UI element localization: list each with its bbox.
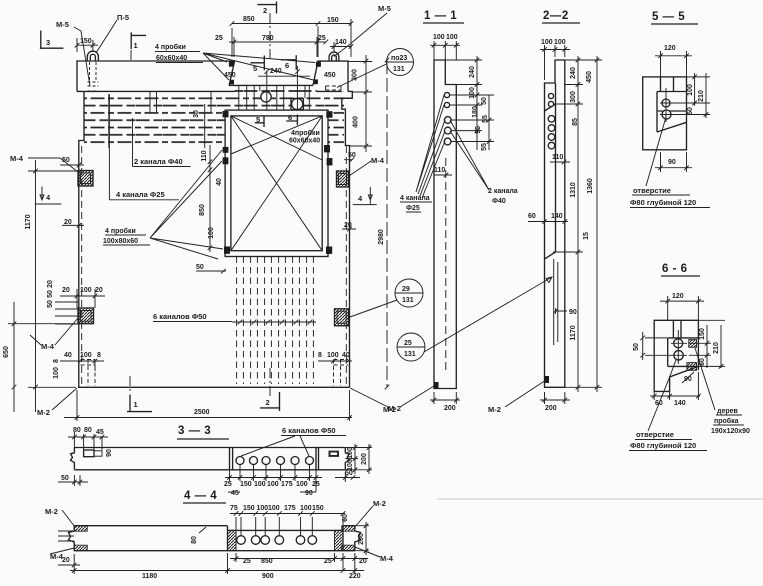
- svg-text:4пробки: 4пробки: [291, 129, 320, 137]
- window diagonals: [231, 116, 322, 251]
- dim 2980 right vertical: [385, 58, 390, 390]
- svg-text:6 каналов Ф50: 6 каналов Ф50: [153, 312, 207, 321]
- dim 120 top 5-5: [655, 51, 692, 77]
- svg-text:100: 100: [80, 287, 92, 294]
- svg-text:50: 50: [687, 107, 694, 115]
- svg-text:150: 150: [240, 481, 252, 488]
- window outer rect: [225, 110, 328, 256]
- svg-text:20: 20: [64, 219, 72, 226]
- window plug TL: [223, 111, 229, 117]
- right plug 3-3: [329, 451, 340, 457]
- svg-text:4 канала: 4 канала: [400, 195, 430, 202]
- svg-text:150: 150: [699, 328, 706, 340]
- svg-text:М-4: М-4: [380, 554, 394, 563]
- svg-text:4 канала Ф25: 4 канала Ф25: [116, 190, 165, 199]
- svg-text:25: 25: [215, 35, 223, 42]
- svg-text:2500: 2500: [194, 409, 210, 416]
- section 2-2 outline: [545, 60, 565, 387]
- left plug rects 3-3: [84, 450, 94, 457]
- svg-text:150: 150: [80, 38, 92, 45]
- svg-text:850: 850: [261, 558, 273, 565]
- svg-text:50: 50: [47, 290, 54, 298]
- svg-text:по23: по23: [391, 55, 407, 62]
- svg-text:6 - 6: 6 - 6: [662, 263, 688, 275]
- svg-text:60: 60: [528, 213, 536, 220]
- section 3-3 outline: [71, 448, 350, 470]
- right dim chain 2-2: [553, 56, 602, 392]
- cut line 2 top: [269, 13, 271, 60]
- flag 5 recess: [250, 56, 264, 71]
- bubble 25/131: [397, 333, 425, 361]
- dim 200 right 4-4: [355, 522, 369, 555]
- svg-text:850: 850: [243, 16, 255, 23]
- dim 140 right loop: [330, 42, 353, 52]
- svg-text:100: 100: [53, 367, 60, 379]
- svg-text:100х80х60: 100х80х60: [103, 238, 138, 245]
- dim 850 150 top: [230, 19, 354, 57]
- circles 6-6: [674, 339, 683, 348]
- svg-text:50: 50: [481, 97, 488, 105]
- svg-text:45: 45: [96, 429, 104, 436]
- inner lines 2-2: [545, 83, 556, 259]
- svg-text:4 — 4: 4 — 4: [184, 490, 217, 502]
- svg-text:40: 40: [64, 352, 72, 359]
- dim 50 left 3-3: [58, 475, 88, 486]
- svg-text:5: 5: [253, 64, 257, 73]
- svg-text:25: 25: [243, 558, 251, 565]
- svg-text:220: 220: [349, 573, 361, 580]
- hidden edge dashed right: [345, 146, 347, 386]
- svg-text:1180: 1180: [142, 573, 157, 580]
- channel circle 1 in recess: [261, 92, 271, 102]
- right block outline: [313, 61, 348, 91]
- dim 650 left vertical: [8, 302, 78, 412]
- svg-text:240: 240: [469, 66, 476, 78]
- svg-text:140: 140: [674, 400, 686, 407]
- flag 5 window: [255, 116, 264, 127]
- svg-text:140: 140: [335, 39, 347, 46]
- svg-text:300: 300: [570, 91, 577, 103]
- dim 200 bottom 2-2: [540, 392, 570, 404]
- plug squares right block: [316, 62, 321, 67]
- channel circle 2: [292, 98, 303, 109]
- flag 2 top: [257, 2, 276, 14]
- svg-text:40: 40: [342, 352, 350, 359]
- svg-text:20: 20: [47, 280, 54, 288]
- centerlines through circles: [267, 66, 298, 114]
- leader M-5 left: [74, 27, 90, 86]
- inner channel lines 2-2: [554, 259, 558, 345]
- svg-text:отверстие: отверстие: [636, 430, 674, 439]
- svg-text:110: 110: [434, 167, 445, 174]
- svg-text:Ф80 глубиной 120: Ф80 глубиной 120: [630, 441, 696, 450]
- svg-text:780: 780: [262, 35, 274, 42]
- svg-text:90: 90: [668, 159, 676, 166]
- hidden plug bottom left dashed: [81, 360, 96, 387]
- flag 4 left: [35, 187, 62, 205]
- hatch band left upper: [84, 92, 234, 111]
- bottom edge: [78, 386, 350, 388]
- dim 1170 left vertical: [28, 160, 78, 412]
- svg-text:М-4: М-4: [41, 342, 55, 351]
- svg-text:100: 100: [296, 481, 308, 488]
- svg-text:1: 1: [134, 41, 138, 50]
- leader P-5: [96, 20, 117, 53]
- flag 2 bottom: [260, 392, 280, 411]
- svg-text:6: 6: [288, 113, 292, 122]
- svg-text:120: 120: [672, 293, 684, 300]
- svg-text:1170: 1170: [570, 325, 577, 340]
- svg-text:8: 8: [53, 359, 60, 363]
- bottom dims 3-3: [225, 465, 322, 492]
- svg-text:200: 200: [444, 405, 456, 412]
- section 1-1 outline: [434, 60, 456, 389]
- svg-text:100: 100: [257, 505, 269, 512]
- svg-text:50: 50: [348, 152, 356, 159]
- inner lines 6-6: [668, 320, 699, 366]
- svg-text:200: 200: [361, 453, 368, 465]
- svg-text:60х60х40: 60х60х40: [156, 55, 187, 62]
- right rotated dims 3-3: [345, 444, 372, 474]
- svg-text:20: 20: [344, 222, 352, 229]
- svg-text:140: 140: [551, 213, 563, 220]
- svg-text:100: 100: [80, 352, 92, 359]
- recess surface line: [229, 84, 313, 86]
- svg-text:25: 25: [404, 340, 412, 347]
- svg-text:131: 131: [402, 297, 414, 304]
- svg-text:80: 80: [191, 536, 198, 544]
- svg-text:200: 200: [545, 405, 557, 412]
- wood plug squares 6-6: [689, 340, 697, 348]
- channel circles 1-1: [444, 92, 449, 97]
- dim 50 right plate: [344, 157, 354, 162]
- svg-text:М-2: М-2: [37, 408, 50, 417]
- svg-text:50: 50: [61, 475, 69, 482]
- dim 150 loop: [75, 38, 98, 52]
- svg-text:М-2: М-2: [373, 499, 386, 508]
- dim 200 bottom 1-1: [430, 392, 460, 404]
- hidden plug bottom right dashed: [334, 360, 349, 387]
- lifting loop right: [329, 52, 339, 61]
- svg-text:150: 150: [327, 17, 339, 24]
- svg-text:110: 110: [552, 154, 563, 161]
- circles 5-5: [662, 99, 670, 107]
- window plugs right mid: [324, 145, 330, 152]
- svg-text:45: 45: [231, 490, 239, 497]
- cut line 1: [130, 50, 131, 394]
- loop anchor dashed left: [88, 62, 99, 91]
- joint lines 3-3: [230, 448, 319, 470]
- bottom dims 1180 900 220: [70, 553, 364, 574]
- svg-text:55: 55: [482, 115, 489, 123]
- svg-text:М-5: М-5: [378, 4, 391, 13]
- svg-text:Ф25: Ф25: [406, 205, 420, 212]
- svg-text:3 — 3: 3 — 3: [178, 425, 211, 437]
- hidden edge dashed left: [81, 146, 83, 386]
- dim 90 bottom 5-5: [655, 152, 692, 172]
- svg-text:150: 150: [243, 505, 255, 512]
- svg-text:131: 131: [393, 66, 405, 73]
- section 5-5 outline: [643, 77, 687, 150]
- svg-text:1: 1: [134, 400, 138, 409]
- section 6-6 outline: [654, 320, 698, 391]
- right dim chain 1-1: [445, 56, 494, 150]
- svg-text:60: 60: [342, 514, 349, 522]
- svg-text:4 пробки: 4 пробки: [155, 43, 186, 51]
- svg-text:50: 50: [62, 157, 70, 164]
- flag 4 right: [353, 187, 377, 205]
- channel circles 4-4: [237, 536, 246, 545]
- svg-text:90: 90: [305, 490, 313, 497]
- svg-text:120: 120: [664, 45, 676, 52]
- dim 240 recess: [258, 69, 310, 76]
- bubble 29/131: [395, 279, 423, 307]
- channel circle 2 box: [291, 99, 303, 110]
- svg-text:210: 210: [698, 90, 705, 102]
- inner lines 5-5: [657, 77, 687, 132]
- window plug BL: [224, 247, 230, 254]
- right dims 5-5: [668, 73, 710, 118]
- dim 50 left: [60, 163, 84, 168]
- dim 20 right: [342, 227, 356, 232]
- svg-text:2 канала Ф40: 2 канала Ф40: [134, 157, 183, 166]
- svg-text:80: 80: [84, 427, 92, 434]
- dim 2500 bottom: [64, 390, 352, 421]
- svg-text:100: 100: [541, 39, 553, 46]
- svg-text:6 каналов Ф50: 6 каналов Ф50: [282, 426, 336, 435]
- svg-text:20: 20: [62, 287, 70, 294]
- svg-text:100: 100: [327, 352, 339, 359]
- dim 50 right 3-3: [335, 472, 360, 482]
- flag 1 top: [131, 32, 146, 49]
- svg-text:М-5: М-5: [56, 20, 69, 29]
- recess vertical hatch lines: [239, 86, 309, 110]
- flag 3 left top: [40, 31, 64, 50]
- channel centerline 1-1: [445, 158, 447, 372]
- svg-text:55: 55: [481, 143, 488, 151]
- svg-text:3: 3: [46, 38, 50, 47]
- bottom dims 850 row: [230, 553, 368, 574]
- svg-text:60х60х40: 60х60х40: [289, 138, 320, 145]
- left shoulder line: [77, 90, 235, 92]
- channel circles 2-2: [548, 93, 553, 98]
- svg-text:100: 100: [300, 505, 312, 512]
- hatched wedge left 4-4: [228, 530, 237, 550]
- svg-text:1170: 1170: [25, 214, 32, 229]
- svg-text:отверстие: отверстие: [633, 186, 671, 195]
- window plug BR: [326, 247, 332, 254]
- svg-text:2: 2: [263, 6, 267, 15]
- svg-text:100: 100: [446, 34, 458, 41]
- hatch band above window right: [317, 92, 344, 111]
- window plug TR: [326, 111, 332, 118]
- M-2 corner mark 1-1: [434, 382, 439, 389]
- left leader lines 4-4: [58, 531, 74, 541]
- hatch band recess middle: [234, 86, 317, 110]
- svg-text:95: 95: [475, 126, 482, 134]
- svg-text:5: 5: [256, 115, 260, 124]
- svg-text:450: 450: [224, 72, 236, 79]
- svg-text:85: 85: [572, 118, 579, 126]
- svg-text:175: 175: [281, 481, 293, 488]
- svg-text:850: 850: [199, 204, 206, 216]
- svg-text:М-2: М-2: [488, 405, 501, 414]
- svg-text:25: 25: [224, 481, 232, 488]
- flag 6 window: [286, 115, 297, 126]
- svg-text:50: 50: [47, 300, 54, 308]
- svg-text:25: 25: [324, 558, 332, 565]
- svg-text:190х120х90: 190х120х90: [711, 428, 750, 435]
- svg-text:25: 25: [312, 481, 320, 488]
- svg-text:200: 200: [358, 533, 365, 545]
- hidden plate dashed under right block: [326, 86, 342, 90]
- svg-text:400: 400: [353, 116, 360, 128]
- svg-text:50: 50: [633, 343, 640, 351]
- svg-text:100: 100: [469, 87, 476, 99]
- svg-text:210: 210: [713, 342, 720, 354]
- svg-text:131: 131: [404, 351, 416, 358]
- svg-text:20: 20: [62, 557, 70, 564]
- dim 25 780 25: [229, 37, 328, 57]
- svg-text:М-4: М-4: [371, 156, 385, 165]
- svg-text:50: 50: [196, 264, 204, 271]
- leaders to plugs: [203, 53, 315, 80]
- dim 120 top 6-6: [660, 296, 704, 320]
- bubble po23/131: [387, 49, 414, 76]
- hatched corners right 4-4: [342, 526, 355, 551]
- M-2 corner mark 2-2: [545, 376, 550, 383]
- cut line 2 bottom: [269, 368, 271, 396]
- svg-text:100: 100: [433, 34, 445, 41]
- embedded plate M-4 left upper: [78, 171, 93, 187]
- svg-text:150: 150: [312, 505, 324, 512]
- leaders 4 kanala F25: [416, 95, 445, 198]
- recess 4-4: [228, 526, 344, 551]
- svg-text:М-2: М-2: [383, 405, 396, 414]
- svg-text:650: 650: [3, 346, 10, 358]
- svg-text:1360: 1360: [587, 178, 594, 194]
- svg-text:2 канала: 2 канала: [488, 188, 518, 195]
- svg-text:90: 90: [106, 449, 113, 457]
- svg-text:8: 8: [97, 352, 101, 359]
- svg-text:900: 900: [262, 573, 274, 580]
- leader 6-6: [648, 360, 676, 431]
- left edge upper band: [79, 91, 84, 387]
- svg-text:100: 100: [208, 227, 215, 239]
- svg-text:8: 8: [318, 352, 322, 359]
- svg-text:100: 100: [687, 84, 694, 96]
- dim 300 400 right chain: [348, 55, 372, 152]
- svg-text:25: 25: [318, 35, 326, 42]
- embedded plate M-4 right lower: [335, 309, 349, 326]
- svg-text:М-4: М-4: [10, 154, 24, 163]
- right shoulder line: [317, 91, 352, 98]
- right shoulder steps: [342, 91, 353, 387]
- svg-text:180: 180: [472, 106, 479, 118]
- hatched wedge right 4-4: [335, 530, 344, 550]
- flag 1 bottom: [127, 395, 152, 412]
- faint scan line: [437, 498, 763, 500]
- embedded plate M-4 left lower: [78, 308, 94, 324]
- hatch band left mid: [84, 111, 225, 149]
- left block outline: [77, 61, 235, 91]
- svg-text:240: 240: [270, 68, 282, 75]
- svg-text:100: 100: [254, 481, 266, 488]
- svg-text:М-2: М-2: [45, 507, 58, 516]
- svg-text:30: 30: [193, 110, 200, 118]
- band vertical lines left: [109, 92, 211, 148]
- hatched corners left 4-4: [74, 526, 87, 551]
- right dims 6-6: [689, 320, 725, 368]
- svg-text:110: 110: [201, 150, 208, 161]
- svg-text:100: 100: [267, 481, 279, 488]
- lifting loop left: [87, 51, 98, 61]
- channels under window (6 pairs dashed): [237, 257, 314, 385]
- dim 100 100 top 2-2: [540, 45, 570, 80]
- svg-text:450: 450: [324, 72, 336, 79]
- flag 6 recess: [281, 55, 296, 69]
- leaders 2 kanala F40: [450, 120, 489, 190]
- svg-text:75: 75: [230, 505, 238, 512]
- svg-text:450: 450: [586, 71, 593, 83]
- svg-text:29: 29: [402, 286, 410, 293]
- top dims 4-4: [230, 511, 345, 535]
- dim 100 100 top 1-1: [430, 41, 460, 60]
- svg-text:2: 2: [266, 398, 270, 407]
- dim 60 140 bottom 6-6: [650, 372, 701, 400]
- svg-text:6: 6: [285, 61, 289, 70]
- dim 20 left: [62, 223, 84, 228]
- window inner rect: [231, 116, 322, 251]
- svg-text:15: 15: [583, 232, 590, 240]
- svg-text:40: 40: [216, 178, 223, 186]
- svg-text:Ф80 глубиной 120: Ф80 глубиной 120: [630, 198, 696, 207]
- svg-text:100: 100: [347, 447, 354, 459]
- svg-text:100: 100: [268, 505, 280, 512]
- section 4-4 outline: [69, 526, 361, 551]
- svg-text:1310: 1310: [570, 182, 577, 198]
- svg-text:5 — 5: 5 — 5: [652, 11, 685, 23]
- window plugs left mid: [223, 147, 229, 153]
- dim 50 left 6-6: [640, 332, 671, 360]
- svg-text:пробка: пробка: [714, 417, 739, 425]
- svg-text:20: 20: [95, 287, 103, 294]
- svg-text:240: 240: [570, 67, 577, 79]
- svg-text:100: 100: [347, 459, 354, 471]
- svg-text:1 — 1: 1 — 1: [424, 10, 457, 22]
- svg-text:П-5: П-5: [117, 13, 129, 22]
- svg-text:90: 90: [569, 309, 577, 316]
- hatch band right upper: [329, 111, 345, 149]
- svg-text:2—2: 2—2: [543, 10, 569, 22]
- leader 5-5: [646, 117, 666, 186]
- svg-text:175: 175: [284, 505, 296, 512]
- svg-text:20: 20: [359, 558, 367, 565]
- svg-text:2980: 2980: [378, 229, 385, 245]
- leaders to window plugs: [150, 150, 223, 259]
- svg-text:Ф40: Ф40: [492, 198, 506, 205]
- channel circles 3-3: [236, 457, 244, 465]
- plug squares left block: [229, 61, 234, 66]
- embedded plate M-4 right upper: [337, 171, 349, 187]
- svg-text:4 пробки: 4 пробки: [105, 227, 136, 235]
- svg-text:100: 100: [554, 39, 566, 46]
- svg-text:дерев: дерев: [717, 408, 739, 415]
